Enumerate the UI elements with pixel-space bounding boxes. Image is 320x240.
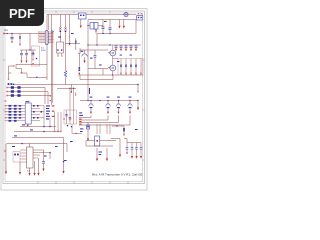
transistor Q1 [82,50,88,63]
wire bus v x48 [47,92,49,105]
wire VCC rail left [4,33,45,35]
pin mark x75.8 [75,93,77,97]
terminal block left y84 [8,83,15,85]
wire y133 [72,124,82,134]
U1 right pins [48,32,53,43]
wire bus vertical C [52,31,54,103]
node y126 b [49,126,50,127]
wire stub y126 right [112,125,124,127]
wire v x44 to bus [43,106,45,127]
transistor Q4 [89,101,94,118]
wire y143 to left arrow [6,143,8,146]
transistor Q7 [127,101,132,126]
pin mark y44 [69,44,71,46]
wire stub x71 [71,85,72,93]
marks below module box [67,125,72,127]
capacitor C2 [102,20,105,34]
U2 pin rows left with resistor arrays [5,105,26,122]
pin mark row y91 [6,91,8,93]
node rail y45 [87,44,88,45]
supply arrow x63 [62,138,64,174]
wire v x70 [69,88,71,110]
wire bus vertical A [46,15,48,81]
capacitor C9 polarized [78,54,80,76]
scattered value labels [44,21,138,161]
wire rail y84 long [14,84,138,86]
wire row y87 [7,87,45,89]
transistor Q6 [116,101,121,123]
U1 left pins [39,32,46,43]
node mid rail [102,33,103,34]
relay K1 boxes [88,23,103,34]
node rail y100 d [107,100,108,101]
wire rail left group [20,49,36,51]
node x63 [63,161,64,162]
supply arrow x138 [137,101,139,111]
sheet frame [3,11,145,184]
wire stub x48.6 [48,15,50,31]
pin dash b [50,99,51,102]
lamp symbol on rail [124,12,128,16]
resistor R1 drop [19,34,21,46]
node rail y45 c [109,44,110,45]
wire across y43 [66,43,81,45]
wire rail y45 center [88,44,141,46]
U2 pin rows right [31,105,44,121]
connector J2 [137,13,143,20]
wire bus y137 [12,137,64,139]
wire v x69.7 [69,15,71,44]
supply arrow far left [5,144,7,174]
wire v x67 [66,144,68,153]
node left group [29,49,30,50]
capacitor C16 [131,143,134,159]
wire row y91 [7,91,48,93]
node rail y100 c [90,100,91,101]
wire staircase y64 [16,64,47,77]
wire row y95 [7,95,51,97]
capacitor C5 [25,50,28,63]
node rail y45 b [96,44,97,45]
label between bottom arrows [99,152,102,156]
frame tick marks [3,11,145,184]
pin mark left y150 [4,150,6,152]
capacitor C17 [135,143,138,159]
node staircase [36,77,37,78]
pin dash a [50,95,51,98]
wire second rail [88,19,136,21]
node y126 [43,126,44,127]
junction dots right of U2 [37,105,42,119]
component box B [13,152,20,163]
node rail y100 f [129,100,130,101]
IC U3 body [27,147,34,168]
resistor R4 [11,86,14,89]
bus labels [12,124,33,147]
wire v to Q2 [112,45,114,50]
node on VCC rail 2 [11,33,12,34]
label column left of transistors [79,112,83,124]
node rail y100 [87,100,88,101]
node y133 [75,133,76,134]
wire corner x120 [111,139,120,155]
wire vertical to lower group [29,34,31,51]
pin drop x138 [137,85,139,91]
resistor R5 [17,86,20,89]
wire vertical x88 long [87,20,89,101]
wire rail y100 [80,100,138,102]
supply arrow x107 bottom [106,148,108,161]
wire bus v x45 [44,88,46,105]
wire bus y126 [20,126,56,128]
node y43 [69,43,70,44]
wire v x103 [102,69,104,76]
node y88 b [73,88,74,89]
node y88 [69,88,70,89]
node y75 [112,74,113,75]
comb left of module box [54,112,62,132]
resistor R7 [17,90,20,93]
capacitor C18 [140,143,143,159]
resistor R3 vertical [75,38,76,50]
U3 top lead [29,144,31,148]
U2 top label [25,101,29,102]
node on VCC rail [7,33,8,34]
sheet page [1,9,147,191]
wire v x97 [96,34,98,46]
transistor Q2 circle [108,50,116,56]
supply arrow x120 [119,155,121,158]
wire loop y79.5 [80,75,113,80]
capacitor C7 [94,50,97,69]
capacitor C1 [10,34,13,44]
node mid rail 2 [109,33,110,34]
clock marker [52,30,54,32]
bottom right bank rail [127,142,141,144]
wire rail y75 long [78,74,143,76]
svg-text:PDF: PDF [9,6,35,21]
pin mark left rail [3,33,5,35]
resistor R8 [11,94,14,97]
wire between Q2 Q3 [112,56,114,66]
wire rail y68 center [88,68,108,70]
component on x124 [123,126,125,136]
wire rail y50 center [80,49,108,51]
wire v x50 [49,153,51,160]
transistor Q3 circle [108,65,116,71]
wire v x50 to bus [49,118,51,127]
node x88 y25 [87,25,88,26]
wire link to bank box [113,58,118,60]
IC U2 body [25,103,31,124]
pin mark row y95 [6,95,8,97]
node rail y100 g [137,100,138,101]
resistor R2 zigzag [64,44,66,85]
supply arrow below U2 [27,125,29,128]
pin mark left y101 [4,100,6,102]
wire stub x80 [78,48,80,54]
node rail y100 e [118,100,119,101]
component box B1 [32,46,40,66]
supply arrow pair top right [118,20,124,29]
op-amp U1 body [45,31,48,45]
node y126 right [116,125,117,126]
node y84 right [137,84,138,85]
wire from y138 to bank [124,139,127,143]
svg-text:Rev. A IR Transmitter 9 V R1,: Rev. A IR Transmitter 9 V R1, Carl GE [92,172,142,176]
wire bus vertical B [50,15,52,106]
capacitor C6 [32,50,35,61]
pin header F structure [8,65,15,80]
PDF badge [0,0,44,26]
capacitor C8 drop [42,150,45,171]
labels left of D3 [80,128,83,132]
pin mark row y87 [6,87,8,89]
labels above rail y100 [90,97,132,98]
U1 left pin tips [38,31,40,41]
wire vertical from J2 [135,20,137,34]
wire bus y143 [8,143,67,145]
capacitor C4 [20,50,23,63]
capacitor C3 [109,20,112,34]
wire top rail [47,14,136,16]
resistor bank RN1 [120,59,142,75]
diode D1 [59,15,61,43]
pin mark x138 [137,91,139,93]
wire below Q3 [112,71,114,75]
cap value labels [120,54,132,57]
node y131 [43,131,44,132]
wire v x73.5 [73,88,75,110]
pin label column right of U2 [46,105,54,119]
resistor R6 [11,90,14,93]
staircase wires below transistors [79,118,130,126]
supply arrow x97 bottom [96,148,98,161]
component D3 on x88 [86,122,89,141]
node y143 [21,143,22,144]
wire segment y88 [57,87,76,89]
component X1 box [57,42,64,57]
node x50 y152 [49,152,50,153]
resistor R9 [17,94,20,97]
capacitor C15 [126,143,129,155]
U3 left pins [20,150,27,162]
U3 right pins [33,150,50,158]
module box A [63,110,76,124]
crystal Y1 [86,136,116,146]
transistor Q5 [106,101,111,121]
pin mark staircase [21,72,23,74]
wire mid rail right [97,33,136,35]
resistor bank box [118,59,143,76]
supply arrow row below U3 [19,158,40,176]
node rail y100 b [99,100,100,101]
connector J1 [78,13,86,28]
wire bus y131 [14,131,61,133]
wire pair v x97 x100 [97,124,110,134]
capacitor bank C10-C14 [115,45,138,51]
diode D2 [64,15,66,44]
